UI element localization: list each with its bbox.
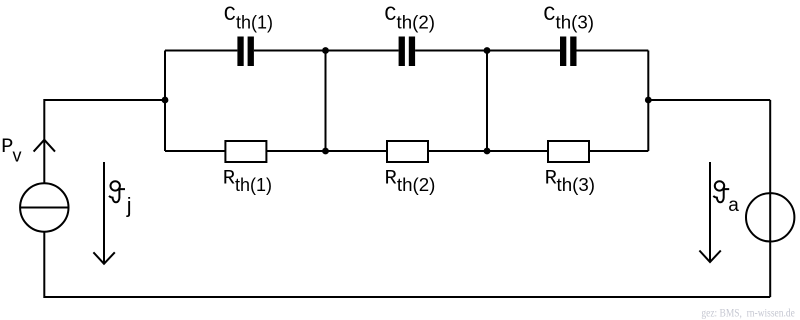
svg-text:th(1): th(1) [236, 13, 273, 33]
svg-text:R: R [545, 167, 557, 190]
svg-text:th(2): th(2) [397, 13, 436, 33]
svg-text:R: R [385, 167, 397, 190]
svg-text:C: C [224, 4, 236, 27]
svg-text:j: j [126, 193, 132, 218]
svg-text:C: C [384, 4, 396, 27]
svg-text:v: v [13, 146, 22, 166]
svg-text:th(3): th(3) [556, 13, 595, 33]
svg-text:C: C [543, 4, 555, 27]
svg-text:gez: BMS, rn-wissen.de: gez: BMS, rn-wissen.de [701, 308, 794, 320]
svg-text:th(1): th(1) [235, 175, 272, 195]
svg-text:th(2): th(2) [397, 175, 436, 195]
svg-text:th(3): th(3) [557, 175, 596, 195]
svg-text:R: R [223, 167, 235, 190]
svg-text:a: a [728, 195, 739, 216]
